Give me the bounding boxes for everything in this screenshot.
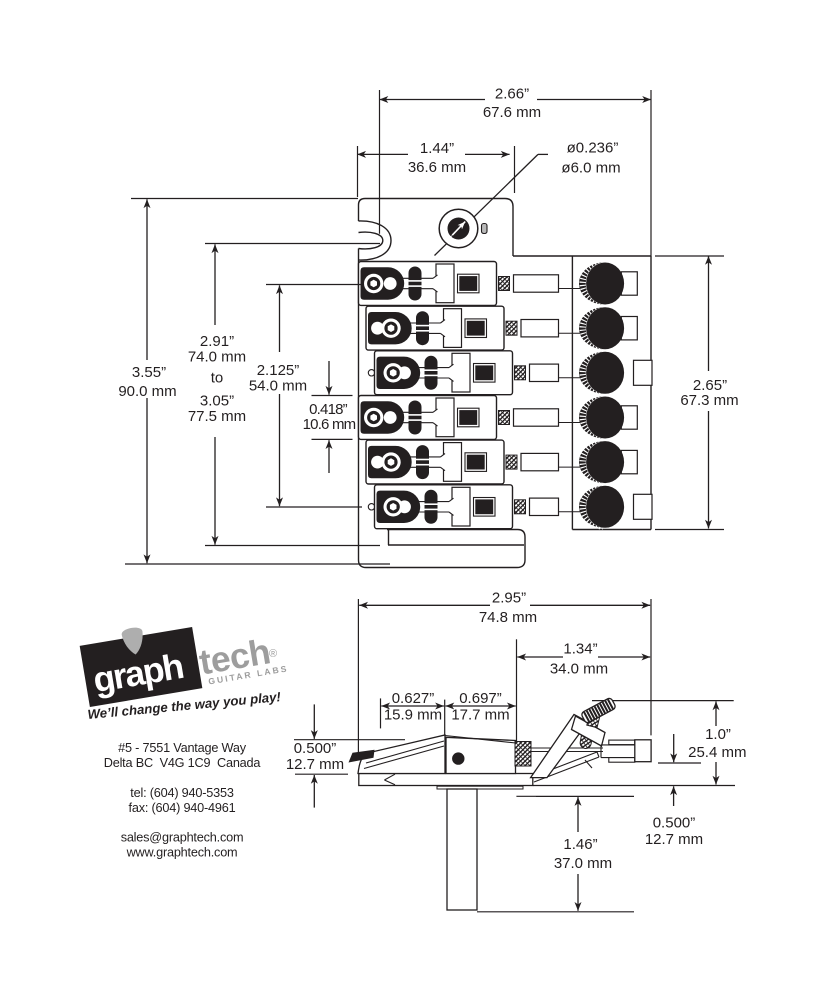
svg-text:2.125”: 2.125”: [257, 362, 300, 379]
svg-text:1.46”: 1.46”: [563, 836, 597, 853]
svg-text:37.0 mm: 37.0 mm: [554, 855, 612, 872]
svg-text:0.500”: 0.500”: [653, 815, 696, 832]
tremolo claw lower edge: [536, 796, 634, 798]
string height arrow: [658, 762, 701, 764]
svg-text:www.graphtech.com: www.graphtech.com: [126, 846, 238, 860]
mounting hole: [439, 209, 478, 248]
svg-text:74.0 mm: 74.0 mm: [188, 349, 246, 366]
graphtech logo: [78, 603, 289, 706]
svg-text:0.500”: 0.500”: [294, 740, 337, 757]
svg-text:12.7 mm: 12.7 mm: [645, 831, 703, 848]
dimension 0.500in / 12.7mm (left): [294, 739, 405, 741]
svg-text:1.0”: 1.0”: [705, 726, 731, 743]
saddle row 1: [359, 262, 638, 306]
dimension 1.0in / 25.4mm: [592, 700, 734, 702]
strings to clamp: [531, 747, 603, 749]
thumbscrew shaft lower: [579, 730, 593, 749]
string clamp assembly: [601, 745, 635, 758]
svg-text:tel: (604) 940-5353: tel: (604) 940-5353: [130, 786, 234, 800]
svg-text:67.6 mm: 67.6 mm: [483, 104, 541, 121]
saddle clamp tip (black): [349, 750, 375, 763]
sustain block: [447, 789, 477, 910]
dimension 0.418in / 10.6mm: [312, 395, 353, 397]
saddle rear block: [446, 737, 516, 773]
svg-text:54.0 mm: 54.0 mm: [249, 378, 307, 395]
string over saddle: [445, 736, 516, 744]
svg-text:34.0 mm: 34.0 mm: [550, 660, 608, 677]
dimension 2.91-3.05in range: [205, 243, 380, 245]
saddle row 5: [366, 440, 637, 484]
bridge top-view base plate outline: [359, 199, 526, 568]
thumbscrew shaft upper: [587, 713, 600, 727]
logo slogan: [87, 689, 282, 722]
pivot surface line: [533, 785, 735, 787]
svg-text:1.44”: 1.44”: [420, 140, 454, 157]
svg-text:ø6.0 mm: ø6.0 mm: [561, 160, 620, 177]
thumbscrew knurled head: [581, 697, 617, 724]
svg-text:2.66”: 2.66”: [495, 86, 529, 103]
svg-text:36.6 mm: 36.6 mm: [408, 159, 466, 176]
saddle row 2: [366, 306, 637, 350]
saddle row 6: [368, 485, 652, 529]
svg-text:0.697”: 0.697”: [459, 690, 502, 707]
svg-text:12.7 mm: 12.7 mm: [286, 756, 344, 773]
svg-text:ø0.236”: ø0.236”: [567, 140, 619, 157]
svg-text:17.7 mm: 17.7 mm: [451, 707, 509, 724]
dimension 1.44in / 36.6mm: [357, 146, 359, 197]
svg-text:to: to: [211, 370, 224, 387]
svg-text:10.6 mm: 10.6 mm: [303, 416, 356, 433]
saddle front wedge: [358, 735, 445, 774]
svg-text:3.55”: 3.55”: [132, 364, 166, 381]
svg-text:67.3 mm: 67.3 mm: [680, 392, 738, 409]
plate under-lip: [437, 786, 523, 789]
dimension 2.95in / 74.8mm: [357, 599, 359, 757]
detent nub: [482, 224, 488, 234]
side view base plate bar: [359, 774, 533, 786]
svg-text:#5 - 7551 Vantage Way: #5 - 7551 Vantage Way: [118, 741, 247, 755]
svg-text:Delta BC V4G 1C9 Canada: Delta BC V4G 1C9 Canada: [104, 756, 262, 770]
svg-text:3.05”: 3.05”: [200, 393, 234, 410]
saddle row 4: [359, 396, 638, 440]
saddle row 3: [368, 351, 652, 395]
svg-text:®: ®: [269, 648, 277, 660]
tremolo claw blade: [531, 752, 597, 778]
dimension 2.65in / 67.3mm (right): [655, 255, 724, 257]
svg-text:sales@graphtech.com: sales@graphtech.com: [121, 831, 244, 845]
dimension 1.34in / 34.0mm: [516, 639, 518, 742]
bar chevron notch: [384, 774, 395, 780]
dimension 0.500in / 12.7mm (right): [673, 786, 675, 806]
svg-text:25.4 mm: 25.4 mm: [688, 744, 746, 761]
dimension 2.125in / 54.0mm: [266, 284, 362, 286]
dimension 0.627in / 15.9mm: [380, 698, 382, 728]
svg-text:2.95”: 2.95”: [492, 589, 526, 606]
svg-text:0.627”: 0.627”: [392, 690, 435, 707]
svg-text:74.8 mm: 74.8 mm: [479, 609, 537, 626]
svg-text:fax: (604) 940-4961: fax: (604) 940-4961: [129, 801, 236, 815]
plate hook notch: [359, 221, 392, 260]
svg-text:15.9 mm: 15.9 mm: [384, 707, 442, 724]
fine-tuner housing block: [513, 256, 651, 530]
svg-text:1.34”: 1.34”: [563, 640, 597, 657]
svg-text:90.0 mm: 90.0 mm: [118, 383, 176, 400]
fine tuner arm: [531, 715, 588, 778]
tuner arm flange: [572, 716, 606, 746]
intonation screw side (hatched): [515, 742, 531, 767]
mounting hole leader line: [435, 154, 539, 255]
dimension 1.46in / 37.0mm: [516, 795, 634, 797]
svg-text:2.91”: 2.91”: [200, 333, 234, 350]
dimension 2.66in / 67.6mm: [379, 90, 381, 234]
svg-text:77.5 mm: 77.5 mm: [188, 408, 246, 425]
dimension 3.55in / 90.0mm: [131, 198, 358, 200]
